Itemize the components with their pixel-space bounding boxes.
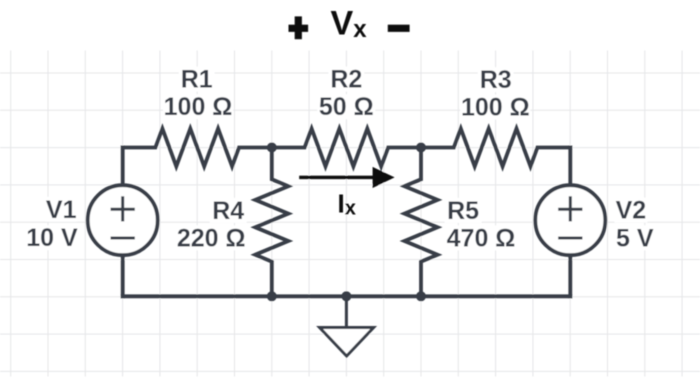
svg-text:V2: V2 xyxy=(616,197,647,225)
svg-text:100 Ω: 100 Ω xyxy=(461,94,530,122)
svg-text:10 V: 10 V xyxy=(26,224,78,252)
svg-text:100 Ω: 100 Ω xyxy=(164,93,233,121)
svg-text:5 V: 5 V xyxy=(616,224,654,252)
svg-text:220 Ω: 220 Ω xyxy=(177,224,246,252)
svg-text:50 Ω: 50 Ω xyxy=(319,93,374,121)
svg-text:R4: R4 xyxy=(212,197,244,225)
svg-text:R3: R3 xyxy=(480,66,512,94)
svg-text:R1: R1 xyxy=(181,66,213,94)
svg-text:R5: R5 xyxy=(447,197,479,225)
svg-text:470 Ω: 470 Ω xyxy=(447,224,516,252)
svg-text:V1: V1 xyxy=(46,196,77,224)
svg-text:R2: R2 xyxy=(330,66,362,94)
